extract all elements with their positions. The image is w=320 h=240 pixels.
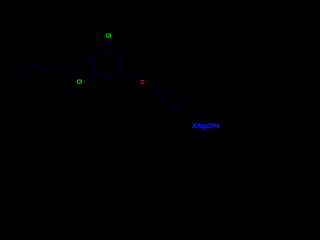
svg-text:Cl: Cl [106, 34, 112, 40]
bond ring to top Cl [107, 40, 109, 49]
chain C3-C4 [45, 64, 58, 72]
benzene double bond inner lower-left [98, 70, 107, 75]
chain C5-C6 [20, 64, 33, 72]
bond O to cyclopentane [147, 85, 161, 96]
svg-text:X Aug / 20%: X Aug / 20% [191, 123, 220, 130]
chain: ring UL to C2 (through C1) [70, 57, 95, 72]
svg-text:Cl: Cl [77, 80, 83, 86]
bond ring LL to Cl [84, 72, 95, 78]
cyclopentane ring [161, 93, 183, 112]
benzene double bond inner upper-left [98, 53, 107, 58]
benzene double bond inner right [117, 59, 119, 69]
chain C6-C7 [7, 64, 20, 72]
chain C2-C3 [57, 64, 70, 72]
bond ring to O [121, 72, 138, 80]
benzene ring [95, 49, 121, 79]
chain C4-C5 [32, 64, 45, 72]
svg-text:O: O [141, 80, 145, 86]
